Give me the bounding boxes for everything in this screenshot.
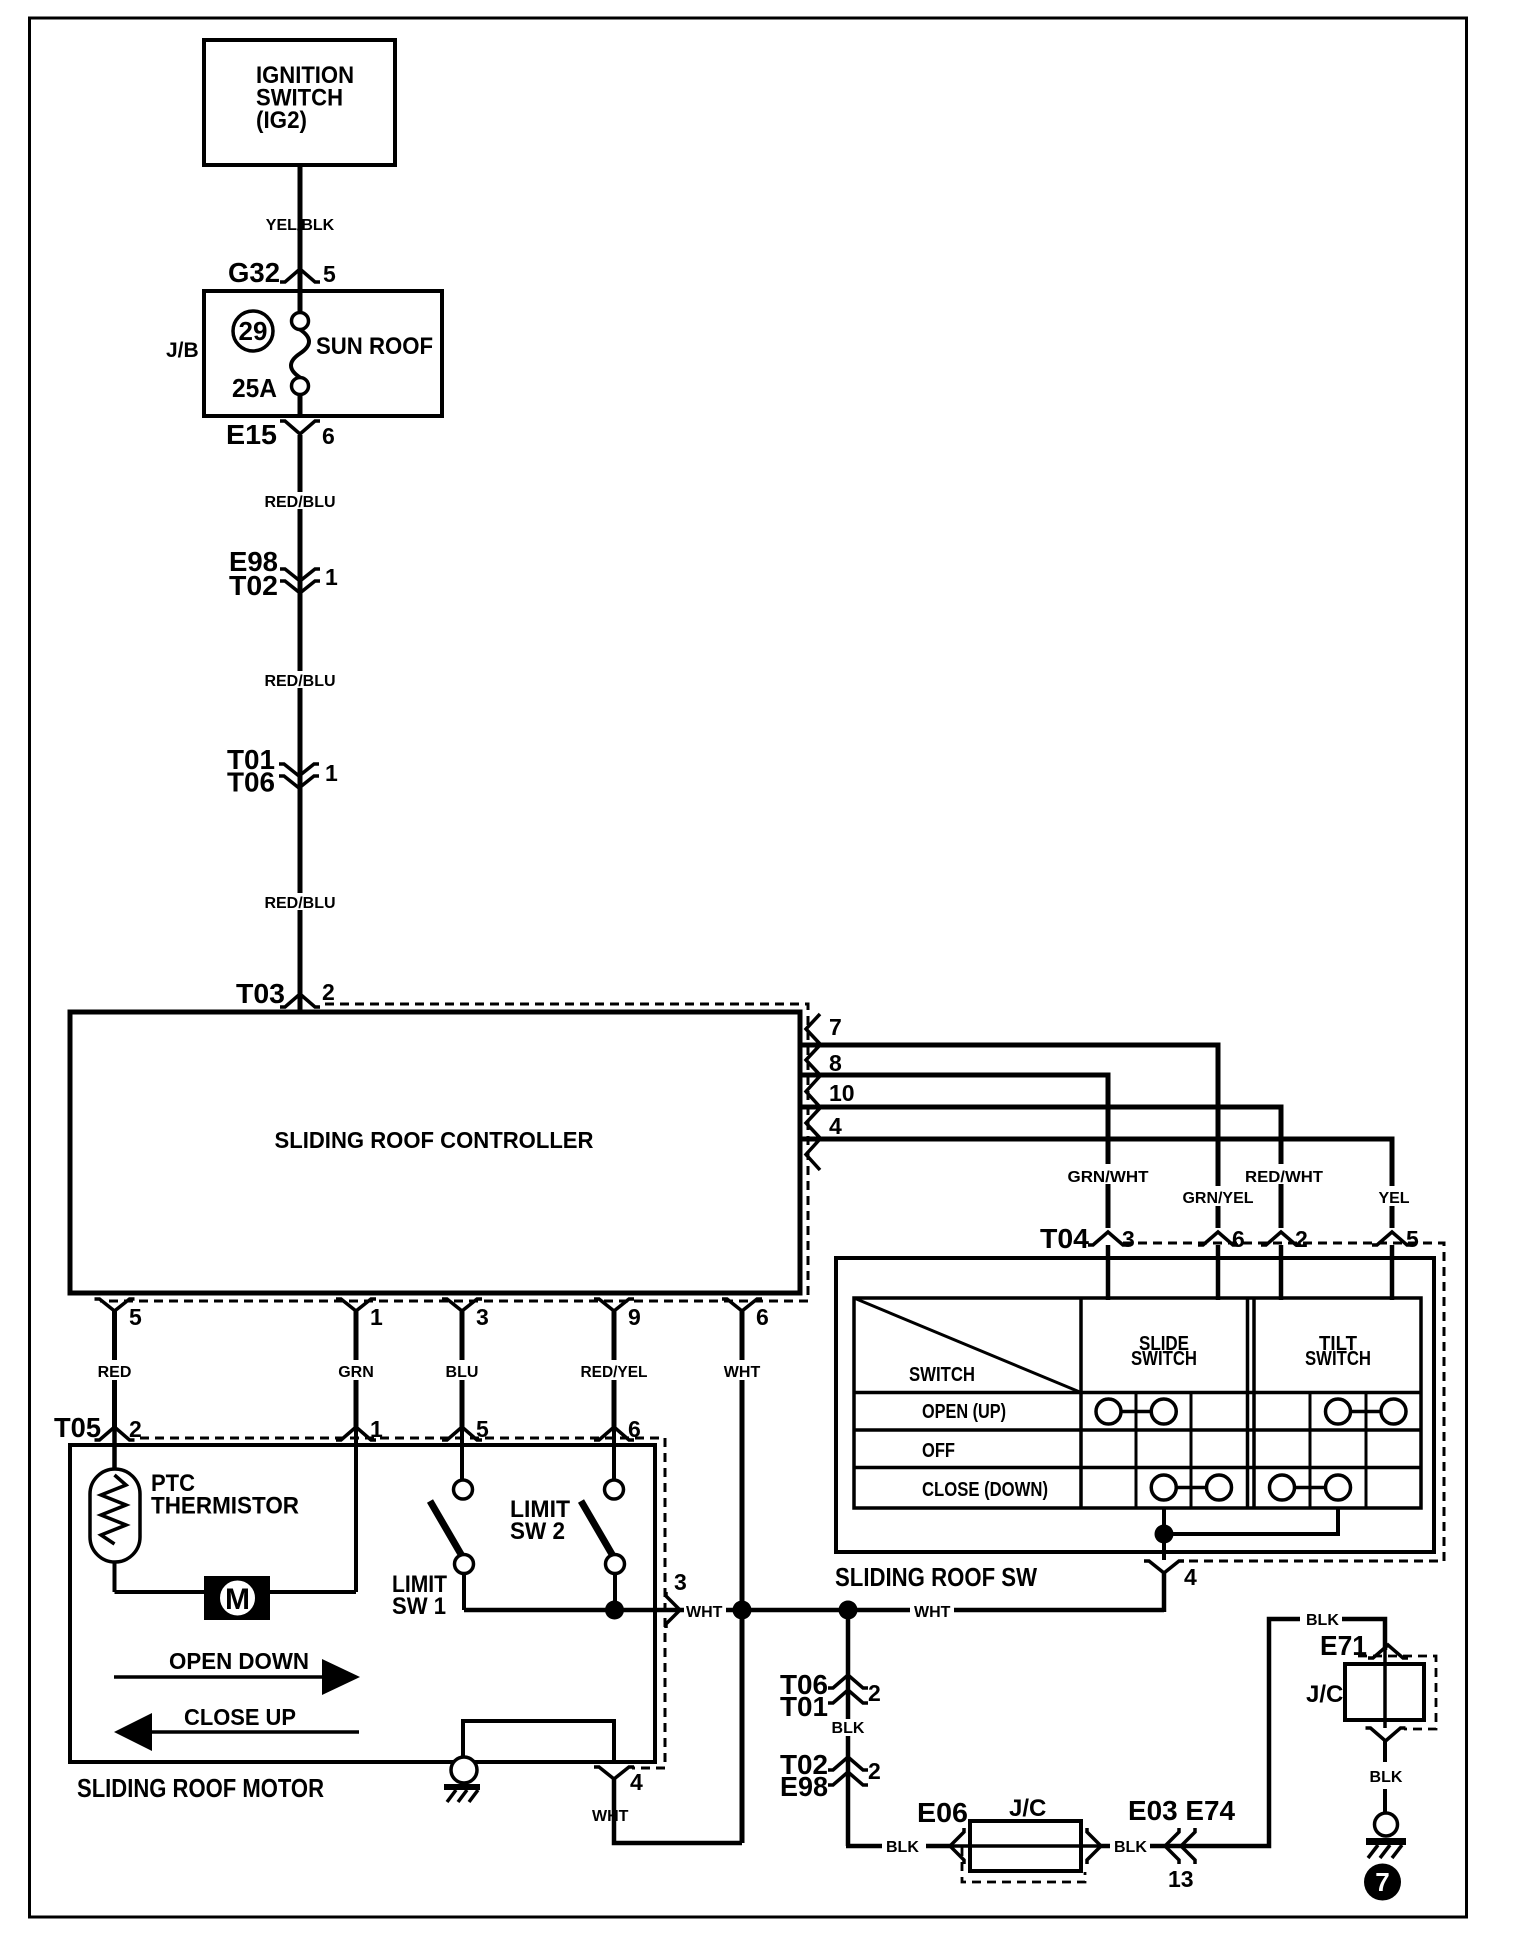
svg-text:T05: T05 <box>54 1412 101 1443</box>
connector E71 <box>1320 1630 1408 1661</box>
wire: controller pin 7 to T04 pin 6 <box>802 1045 1218 1228</box>
svg-text:5: 5 <box>129 1304 142 1330</box>
WHT bus: limit switches to sliding roof switch <box>464 1608 1164 1613</box>
svg-text:RED/WHT: RED/WHT <box>1245 1169 1323 1186</box>
sliding roof motor box <box>70 1438 665 1768</box>
wire: J/C to ground (BLK) <box>1383 1741 1387 1762</box>
svg-text:6: 6 <box>1232 1226 1245 1252</box>
svg-text:BLK: BLK <box>1370 1769 1403 1786</box>
wire: switch pin 4 down to WHT bus <box>1162 1573 1167 1612</box>
wire label WHT (pin 3) <box>684 1600 726 1621</box>
svg-text:2: 2 <box>1295 1226 1308 1252</box>
wire label YEL <box>1372 1186 1414 1207</box>
wires: T04 pins into switch table <box>1108 1245 1392 1300</box>
svg-text:4: 4 <box>829 1113 842 1139</box>
svg-text:J/C: J/C <box>1009 1795 1046 1822</box>
contacts: slide switch CLOSE row <box>1151 1475 1231 1500</box>
wire label RED/YEL <box>576 1360 652 1381</box>
svg-text:3: 3 <box>476 1304 489 1330</box>
svg-text:(IG2): (IG2) <box>256 107 307 134</box>
svg-text:4: 4 <box>630 1769 643 1795</box>
wire label WHT <box>719 1360 765 1381</box>
svg-text:GRN/YEL: GRN/YEL <box>1183 1190 1254 1207</box>
svg-text:6: 6 <box>756 1304 769 1330</box>
wire label RED/WHT <box>1241 1164 1327 1186</box>
svg-text:SWITCH: SWITCH <box>1305 1348 1371 1370</box>
direction arrow CLOSE UP <box>114 1704 359 1751</box>
wire label RED/BLU <box>262 492 338 511</box>
connector T04 pin 5 <box>1372 1226 1419 1252</box>
svg-text:WHT: WHT <box>724 1364 761 1381</box>
wire: switch commons to box pin 4 <box>1164 1508 1338 1560</box>
svg-text:E03 E74: E03 E74 <box>1128 1795 1235 1826</box>
junction connector J/C (E06 side) <box>953 1795 1098 1882</box>
connector T06/T01 pin 2 <box>780 1669 881 1722</box>
connector T05 pin 5 <box>442 1416 489 1442</box>
fuse element 25A SUN ROOF <box>291 268 309 416</box>
label LIMIT SW 1 <box>392 1571 447 1620</box>
fuse circled 29 <box>233 311 273 351</box>
svg-text:RED/BLU: RED/BLU <box>264 673 335 690</box>
wire: T05 pin 2 into PTC thermistor <box>112 1430 117 1470</box>
contacts: tilt switch OPEN row <box>1326 1399 1407 1424</box>
svg-text:CLOSE UP: CLOSE UP <box>184 1704 296 1730</box>
controller pin 5 (bottom) <box>95 1299 143 1330</box>
svg-text:9: 9 <box>628 1304 641 1330</box>
svg-text:7: 7 <box>1375 1867 1389 1897</box>
switch box pin 4 connector <box>1144 1561 1197 1590</box>
svg-text:BLK: BLK <box>886 1839 919 1856</box>
svg-text:3: 3 <box>674 1569 687 1595</box>
connector T05 pin 6 <box>594 1416 641 1442</box>
svg-text:GRN/WHT: GRN/WHT <box>1068 1169 1149 1186</box>
junction connector J/C (E71) <box>1306 1648 1436 1729</box>
connector T01/T06 pin 1 <box>227 744 338 798</box>
motor box pin 3 connector on bus <box>666 1569 687 1628</box>
connector G32 pin 5 <box>228 257 336 288</box>
wire: controller pin 8 to T04 pin 3 <box>802 1075 1108 1228</box>
label LIMIT SW 2 <box>510 1496 570 1545</box>
wire: T05 pin 6 to limit switch 2 <box>612 1430 616 1481</box>
svg-text:E06: E06 <box>917 1797 968 1828</box>
svg-text:T06: T06 <box>227 767 275 798</box>
svg-text:13: 13 <box>1168 1866 1194 1892</box>
svg-text:WHT: WHT <box>592 1808 629 1825</box>
svg-text:YEL/BLK: YEL/BLK <box>266 217 335 234</box>
svg-text:1: 1 <box>325 564 338 590</box>
connector T02/E98 pin 2 <box>780 1749 881 1802</box>
controller pin 9 (bottom) <box>594 1299 641 1330</box>
wire: PTC to motor to GRN pin <box>115 1430 357 1592</box>
wire segment to ground <box>1383 1789 1387 1814</box>
svg-text:2: 2 <box>868 1758 881 1784</box>
limit switch 1 <box>430 1480 474 1610</box>
limit switch 2 <box>581 1480 625 1610</box>
sliding roof switch box <box>836 1243 1444 1561</box>
PTC thermistor <box>90 1469 140 1562</box>
svg-text:G32: G32 <box>228 257 280 288</box>
wire: controller pin 9 to T05 pin 6 (RED/YEL) <box>612 1310 617 1430</box>
connector E03 E74 pin 13 <box>1087 1795 1235 1892</box>
svg-text:YEL: YEL <box>1378 1190 1409 1207</box>
wire: motor pin 4 to bus junction (WHT return) <box>614 1779 742 1843</box>
wire label BLK <box>1110 1838 1150 1856</box>
connector T04 pin 2 <box>1261 1226 1308 1252</box>
svg-text:OPEN DOWN: OPEN DOWN <box>169 1648 309 1674</box>
connector below E71 J/C <box>1366 1728 1406 1741</box>
connector T05 pin 1 <box>336 1416 383 1442</box>
svg-text:SWITCH: SWITCH <box>909 1364 975 1386</box>
wire: controller pin 10 to T04 pin 2 <box>802 1107 1281 1228</box>
wire: controller pin 1 to T05 pin 1 (GRN) <box>354 1310 359 1430</box>
svg-text:5: 5 <box>1406 1226 1419 1252</box>
svg-text:29: 29 <box>239 316 268 346</box>
svg-text:WHT: WHT <box>686 1604 723 1621</box>
svg-text:T02: T02 <box>229 570 278 601</box>
wire: E03/E74 up and over to E71 (BLK) <box>1098 1619 1385 1846</box>
wire: down-corner to junction connector E06 (BLK) <box>846 1844 953 1849</box>
wire: controller pin 6 down to WHT bus and motor return (WHT) <box>740 1310 745 1843</box>
wire label BLU <box>441 1360 483 1381</box>
wire: controller pin 5 to T05 pin 2 (RED) <box>112 1310 117 1430</box>
motor M <box>204 1576 270 1620</box>
svg-text:OFF: OFF <box>922 1440 955 1462</box>
svg-text:7: 7 <box>829 1014 842 1040</box>
svg-text:RED/YEL: RED/YEL <box>581 1364 648 1381</box>
table header SLIDE SWITCH <box>1131 1333 1197 1370</box>
motor box pin 4 connector <box>594 1767 643 1795</box>
wire label BLK <box>882 1837 926 1856</box>
svg-text:25A: 25A <box>232 373 277 403</box>
wire label GRN/YEL <box>1176 1186 1262 1207</box>
junction: limit switch 2 on bus <box>605 1601 624 1620</box>
wire label RED <box>92 1360 137 1381</box>
wire: controller pin 3 to T05 pin 5 (BLU) <box>460 1310 465 1430</box>
svg-text:T01: T01 <box>780 1691 828 1722</box>
controller pin 6 (bottom) <box>722 1299 769 1330</box>
svg-text:SW 2: SW 2 <box>510 1518 565 1545</box>
svg-text:J/B: J/B <box>166 339 199 362</box>
svg-text:2: 2 <box>322 979 335 1005</box>
svg-text:E98: E98 <box>780 1771 828 1802</box>
controller right-edge connector chevrons <box>806 1014 820 1170</box>
wire label GRN/WHT <box>1063 1164 1153 1186</box>
connector E06 <box>917 1797 968 1864</box>
svg-text:SWITCH: SWITCH <box>1131 1348 1197 1370</box>
svg-text:5: 5 <box>323 261 336 287</box>
svg-text:THERMISTOR: THERMISTOR <box>151 1493 299 1520</box>
wire label WHT (bus) <box>910 1600 954 1621</box>
junction: controller pin 6 wire on bus <box>733 1601 752 1620</box>
junction block J/B <box>166 291 442 416</box>
contacts: slide switch OPEN row <box>1096 1399 1176 1424</box>
svg-text:1: 1 <box>325 760 338 786</box>
svg-text:OPEN (UP): OPEN (UP) <box>922 1401 1006 1423</box>
svg-text:BLK: BLK <box>1306 1612 1339 1629</box>
ignition switch (IG2) <box>204 40 395 165</box>
sliding roof controller <box>70 1004 808 1301</box>
svg-text:SLIDING ROOF MOTOR: SLIDING ROOF MOTOR <box>77 1773 324 1803</box>
connector E98/T02 pin 1 <box>229 546 338 601</box>
svg-text:T04: T04 <box>1040 1223 1089 1254</box>
svg-text:BLK: BLK <box>832 1720 865 1737</box>
switch function table <box>854 1298 1421 1508</box>
junction: ground drop on bus <box>839 1601 858 1620</box>
wire: controller pin 4 to T04 pin 5 <box>802 1139 1392 1228</box>
svg-text:SW 1: SW 1 <box>392 1593 446 1620</box>
svg-text:6: 6 <box>322 423 335 449</box>
wire label RED/BLU <box>262 893 338 912</box>
connector T03 pin 2 <box>236 978 335 1009</box>
label PTC THERMISTOR <box>151 1470 299 1520</box>
svg-text:SUN ROOF: SUN ROOF <box>316 333 433 360</box>
svg-text:RED/BLU: RED/BLU <box>264 895 335 912</box>
svg-text:2: 2 <box>129 1416 142 1442</box>
connector T04 pin 3 <box>1088 1226 1135 1252</box>
svg-text:2: 2 <box>868 1680 881 1706</box>
wire: bus junction down to ground chain (BLK) <box>846 1610 851 1846</box>
svg-text:BLU: BLU <box>446 1364 479 1381</box>
svg-text:CLOSE (DOWN): CLOSE (DOWN) <box>922 1479 1048 1501</box>
wire label BLK <box>1300 1609 1342 1629</box>
controller pin 1 (bottom) <box>336 1299 383 1330</box>
svg-text:SLIDING ROOF SW: SLIDING ROOF SW <box>835 1562 1037 1592</box>
svg-text:J/C: J/C <box>1306 1681 1343 1708</box>
svg-text:4: 4 <box>1184 1564 1197 1590</box>
connector E15 pin 6 <box>226 419 335 450</box>
controller pin 3 (bottom) <box>442 1299 489 1330</box>
svg-text:BLK: BLK <box>1114 1839 1147 1856</box>
connector T04 pin 6 <box>1198 1226 1245 1252</box>
motor internal ground loop <box>463 1721 614 1763</box>
svg-text:E15: E15 <box>226 419 277 450</box>
wire: T05 pin 5 to limit switch 1 <box>460 1430 464 1481</box>
svg-text:GRN: GRN <box>338 1364 374 1381</box>
svg-text:1: 1 <box>370 1304 383 1330</box>
wire: E15 to E98/T02 (RED/BLU) <box>298 435 303 1012</box>
svg-text:M: M <box>225 1583 250 1616</box>
svg-text:T03: T03 <box>236 978 285 1009</box>
wire label RED/BLU <box>262 671 338 690</box>
direction arrow OPEN DOWN <box>114 1648 360 1695</box>
wire label BLK <box>829 1719 867 1737</box>
junction: switch commons <box>1155 1525 1174 1544</box>
wire: ignition switch to G32 (YEL/BLK) <box>298 165 303 268</box>
connector T05 pin 2 <box>95 1416 142 1442</box>
table header TILT SWITCH <box>1305 1333 1371 1370</box>
svg-text:RED: RED <box>98 1364 132 1381</box>
ground reference circled 7 <box>1364 1864 1401 1901</box>
contacts: tilt switch CLOSE row <box>1270 1475 1351 1500</box>
wire label GRN <box>333 1360 379 1381</box>
svg-text:8: 8 <box>829 1050 842 1076</box>
motor ground <box>444 1757 480 1802</box>
svg-text:SLIDING ROOF CONTROLLER: SLIDING ROOF CONTROLLER <box>275 1127 594 1153</box>
ground (body ground) <box>1366 1813 1406 1858</box>
svg-text:10: 10 <box>829 1080 855 1106</box>
svg-text:WHT: WHT <box>914 1604 951 1621</box>
svg-text:RED/BLU: RED/BLU <box>264 494 335 511</box>
svg-text:3: 3 <box>1122 1226 1135 1252</box>
